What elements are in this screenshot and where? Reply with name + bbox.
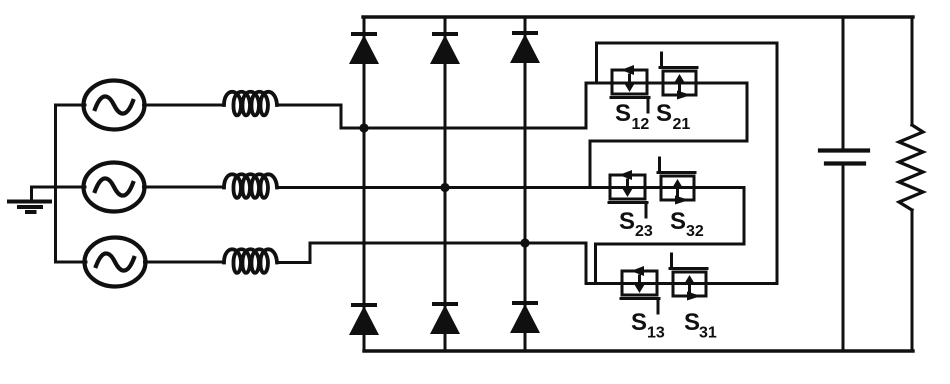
ac source VA xyxy=(84,81,145,130)
svg-text:21: 21 xyxy=(673,116,691,133)
wire step down phase A xyxy=(340,105,343,128)
svg-text:S: S xyxy=(670,208,686,235)
wire pair 1 return horizontal xyxy=(590,140,747,143)
wire pair 1 right drop xyxy=(746,83,749,141)
diode D2 bottom xyxy=(510,301,540,333)
wire bus to source A xyxy=(56,104,86,107)
wire phase B to switch pair 2 xyxy=(277,186,744,189)
inductor LC xyxy=(224,249,277,273)
label S13 xyxy=(631,309,665,342)
wire inductor A to step xyxy=(277,104,341,107)
wire load bottom xyxy=(911,210,914,351)
wire top loop horizontal xyxy=(597,42,778,45)
node A junction dot xyxy=(359,123,368,132)
wire inductor C to step xyxy=(277,261,310,264)
wire: left bus xyxy=(54,105,57,262)
wire ground to bus xyxy=(32,186,56,189)
wire: dc bottom rail xyxy=(364,349,913,352)
wire step up phase C xyxy=(309,243,312,263)
wire bridge leg 1 xyxy=(363,17,366,351)
wire switch pair 3 row xyxy=(586,282,777,285)
diode D5 top xyxy=(510,31,540,63)
wire outer loop vertical xyxy=(776,43,779,284)
label S31 xyxy=(684,309,717,342)
switch pair S13 S31 xyxy=(621,254,707,313)
wire capacitor bottom xyxy=(842,166,845,351)
label S21 xyxy=(656,100,690,133)
diode D1 top xyxy=(349,32,379,64)
wire phase C drop to pair 3 xyxy=(585,243,588,284)
wire pair 1 return drop to node B xyxy=(589,141,592,188)
ac source VB xyxy=(84,163,145,212)
resistor R load xyxy=(899,125,923,210)
wire switch pair 1 row xyxy=(586,82,747,85)
label S12 xyxy=(615,100,649,133)
wire source B to inductor B xyxy=(144,186,225,189)
wire pair 2 right drop to node C xyxy=(743,188,746,245)
diode D3 top xyxy=(430,32,460,64)
wire phase C to switch network xyxy=(310,242,586,245)
wire bridge leg 2 xyxy=(444,17,447,351)
svg-text:S: S xyxy=(615,100,631,127)
svg-text:12: 12 xyxy=(632,116,650,133)
svg-text:32: 32 xyxy=(686,223,704,240)
svg-text:S: S xyxy=(684,309,700,336)
wire phase A to switch network xyxy=(341,127,586,130)
capacitor C plates xyxy=(820,151,868,164)
wire source C to inductor C xyxy=(145,261,225,264)
diode D4 bottom xyxy=(349,303,379,335)
ground xyxy=(9,187,50,212)
diode D6 bottom xyxy=(430,302,460,334)
node C junction dot xyxy=(520,238,529,247)
wire bridge leg 3 xyxy=(524,17,527,351)
inductor LB xyxy=(224,174,277,198)
wire: dc top rail xyxy=(363,15,913,18)
wire source A to inductor A xyxy=(144,104,225,107)
svg-text:S: S xyxy=(631,309,647,336)
wire bus to source C xyxy=(56,261,87,264)
inductor LA xyxy=(224,92,277,116)
wire riser pair 1 to top loop xyxy=(595,43,598,83)
svg-text:31: 31 xyxy=(699,325,717,342)
svg-text:S: S xyxy=(656,100,672,127)
switch pair S12 S21 xyxy=(611,53,697,112)
wire bus to source B xyxy=(56,186,86,189)
switch pair S23 S32 xyxy=(609,158,695,217)
svg-text:13: 13 xyxy=(647,325,665,342)
wire notch riser at node C xyxy=(594,244,597,284)
node B junction dot xyxy=(440,183,449,192)
svg-text:23: 23 xyxy=(635,223,653,240)
wire riser phase A to pair 1 xyxy=(585,83,588,128)
svg-text:S: S xyxy=(619,208,635,235)
ac source VC xyxy=(85,238,146,287)
label S23 xyxy=(619,208,653,240)
wire capacitor top xyxy=(842,17,845,149)
wire load top xyxy=(911,17,914,125)
label S32 xyxy=(670,208,704,240)
wire node C to pair 2 horizontal xyxy=(596,243,745,246)
